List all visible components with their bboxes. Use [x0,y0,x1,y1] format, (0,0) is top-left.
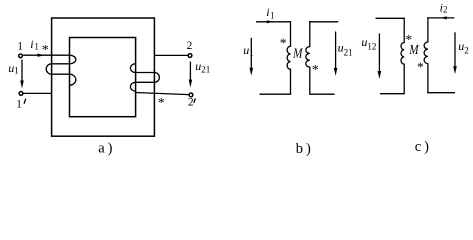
svg-text:b ): b ) [296,141,311,157]
wire 1 [23,54,70,56]
svg-text:2: 2 [187,40,193,52]
terminal 2 [188,54,192,58]
bottom-right wire (c) [427,92,455,94]
voltage arrow u1 (b) [250,38,252,70]
wire 1' [23,92,52,94]
right branch vertical + coil L2 (c) [424,17,428,92]
svg-text:1: 1 [17,41,23,53]
left branch vertical + coil L1 (c) [401,18,404,94]
right branch vertical + coil L2 (b) [306,21,310,94]
top-right wire (c) [427,17,454,19]
core inner rectangle [70,38,136,117]
wire 1 arrowhead [38,54,45,57]
terminal 1 [19,54,23,58]
wire arrowhead i1 (b) [267,20,273,23]
svg-text:*: * [312,62,319,77]
terminal 2' [189,93,193,97]
right winding (a) [130,64,159,91]
svg-text:c ): c ) [415,139,429,155]
svg-text:*: * [280,36,287,51]
bottom-right wire (b) [309,93,334,95]
bottom-left wire (c) [380,93,405,95]
svg-text:*: * [417,60,424,75]
top-left wire (c) [376,17,405,19]
voltage arrow u21 (a) [189,62,191,82]
wire arrowhead i2 (c) [441,16,447,19]
svg-text:*: * [158,95,165,110]
svg-text:M: M [408,42,419,57]
wire 2' [136,93,189,95]
left branch vertical + coil L1 (b) [287,21,290,94]
top-right wire (b) [309,21,338,23]
svg-text:1: 1 [16,99,22,111]
left winding (a) [46,55,76,85]
svg-text:a ): a ) [98,140,112,156]
voltage arrow u21 (b) [335,32,337,70]
bottom-left wire (b) [260,93,292,95]
core outer rectangle [52,18,155,136]
wire 2 [154,54,187,56]
voltage arrow u1 (a) [21,60,23,83]
svg-text:2: 2 [188,97,194,109]
voltage arrow u2 (c) [454,32,456,68]
top-left wire (b) [256,21,291,23]
svg-text:M: M [292,45,303,60]
terminal 1' [19,92,23,96]
voltage arrow u12 (c) [378,34,380,73]
